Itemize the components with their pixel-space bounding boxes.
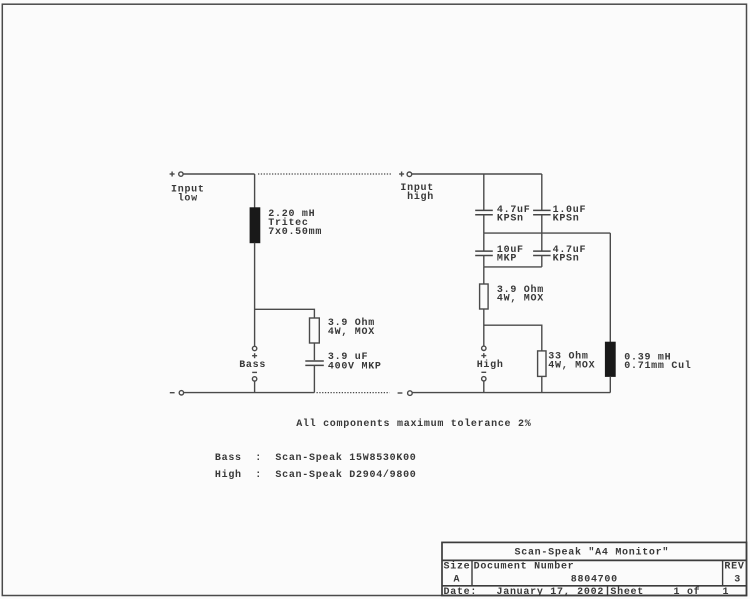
wire dotted low-high + bus bbox=[258, 173, 391, 175]
label 3.9 Ohm 4W, MOX bbox=[328, 317, 375, 338]
node Bass minus sign bbox=[252, 371, 257, 373]
svg-text:7x0.50mm: 7x0.50mm bbox=[268, 227, 322, 238]
label 1.0uF KPSn bbox=[553, 205, 587, 225]
wire junction to 33 Ohm branch bbox=[484, 325, 542, 351]
wire bbox=[254, 243, 256, 347]
wire bbox=[183, 173, 254, 175]
label Input low bbox=[171, 184, 205, 204]
svg-text:8804700: 8804700 bbox=[571, 574, 618, 585]
title block divider REV bbox=[722, 560, 724, 585]
terminal Input low + bbox=[179, 172, 183, 176]
wire bbox=[254, 381, 256, 393]
svg-text:4W, MOX: 4W, MOX bbox=[548, 360, 595, 371]
inductor 0.39 mH bbox=[605, 342, 615, 376]
label 0.39 mH 0.71mm Cul bbox=[624, 352, 691, 371]
label 4.7uF KPSn lower bbox=[553, 245, 587, 265]
wire bbox=[541, 215, 543, 233]
svg-text:Bass: Bass bbox=[239, 360, 266, 371]
capacitor 4.7uF KPSn lower plates bbox=[533, 251, 551, 255]
node High plus sign bbox=[481, 353, 486, 358]
wire dotted low-high return bus bbox=[317, 392, 390, 394]
wire bbox=[609, 376, 611, 392]
label 2.20 mH Tritec 7x0.50mm bbox=[268, 209, 322, 238]
wire right riser bbox=[609, 233, 611, 342]
node low return - bbox=[170, 392, 175, 394]
svg-text:1 of: 1 of bbox=[674, 586, 701, 598]
terminal High + bbox=[482, 346, 486, 350]
svg-text:REV: REV bbox=[724, 562, 744, 573]
svg-text:High: High bbox=[477, 359, 504, 371]
terminal Input high + bbox=[407, 172, 412, 177]
wire bbox=[483, 267, 485, 284]
wire lower connector bbox=[484, 266, 542, 268]
svg-text:low: low bbox=[178, 192, 198, 204]
svg-text:Scan-Speak "A4 Monitor": Scan-Speak "A4 Monitor" bbox=[515, 547, 670, 559]
capacitor 10uF MKP plates bbox=[475, 251, 493, 255]
title block row line lower bbox=[442, 585, 747, 587]
label Input high bbox=[400, 183, 434, 203]
svg-text:0.71mm Cul: 0.71mm Cul bbox=[624, 360, 691, 372]
inductor 2.20 mH bbox=[250, 208, 260, 243]
svg-text:Bass : Scan-Speak 15W8530K00: Bass : Scan-Speak 15W8530K00 bbox=[215, 452, 417, 464]
svg-text:KPSn: KPSn bbox=[553, 213, 580, 224]
wire bbox=[541, 233, 543, 251]
svg-text:1: 1 bbox=[723, 587, 730, 598]
wire bbox=[313, 365, 315, 392]
svg-text:KPSn: KPSn bbox=[553, 254, 580, 265]
node Input low + bbox=[170, 172, 175, 177]
node Input high + bbox=[399, 172, 404, 177]
svg-text:January 17, 2002: January 17, 2002 bbox=[497, 587, 605, 598]
svg-text:400V MKP: 400V MKP bbox=[328, 361, 382, 372]
wire bbox=[184, 392, 315, 394]
svg-text:A: A bbox=[454, 574, 461, 585]
svg-text:All components maximum toleran: All components maximum tolerance 2% bbox=[296, 418, 531, 430]
svg-text:MKP: MKP bbox=[497, 254, 517, 265]
svg-text:KPSn: KPSn bbox=[497, 213, 524, 224]
title block row line upper bbox=[442, 559, 747, 561]
capacitor 4.7uF KPSn upper-left plates bbox=[475, 210, 493, 214]
resistor 33 Ohm bbox=[538, 351, 546, 377]
node High minus sign bbox=[481, 371, 486, 373]
resistor 3.9 Ohm low bbox=[310, 318, 320, 343]
wire mid horizontal bbox=[484, 232, 611, 234]
svg-text:High : Scan-Speak D2904/9800: High : Scan-Speak D2904/9800 bbox=[215, 469, 417, 481]
terminal Bass + bbox=[252, 346, 256, 350]
label 3.9 Ohm 4W, MOX high bbox=[497, 284, 544, 305]
terminal high return bbox=[408, 391, 413, 396]
label 3.9 uF 400V MKP bbox=[328, 352, 382, 373]
svg-text:3: 3 bbox=[734, 574, 741, 585]
wire bbox=[541, 256, 543, 267]
wire bbox=[541, 174, 543, 210]
wire bbox=[254, 174, 256, 208]
label 33 Ohm 4W, MOX bbox=[548, 350, 595, 371]
wire bbox=[541, 376, 543, 392]
terminal Bass - bbox=[252, 377, 256, 381]
title block divider Size bbox=[471, 560, 473, 585]
wire bbox=[483, 256, 485, 267]
wire bbox=[483, 381, 485, 393]
svg-text:Sheet: Sheet bbox=[610, 586, 644, 598]
label 4.7uF KPSn bbox=[497, 205, 531, 225]
title block outline bbox=[442, 542, 747, 595]
wire bbox=[412, 173, 542, 175]
wire bbox=[483, 215, 485, 233]
capacitor 1.0uF KPSn plates bbox=[533, 210, 551, 214]
wire bbox=[412, 392, 610, 394]
terminal low return bbox=[179, 391, 183, 395]
wire junction to RC branch bbox=[255, 309, 315, 318]
svg-text:4W, MOX: 4W, MOX bbox=[328, 327, 375, 338]
node Bass plus sign bbox=[252, 353, 257, 358]
terminal High - bbox=[482, 377, 486, 381]
label 10uF MKP bbox=[497, 245, 524, 265]
node high return - bbox=[398, 392, 403, 394]
wire bbox=[483, 233, 485, 251]
wire bbox=[483, 174, 485, 210]
wire bbox=[313, 343, 315, 360]
svg-text:Document Number: Document Number bbox=[474, 561, 575, 573]
svg-text:high: high bbox=[407, 191, 434, 203]
resistor 3.9 Ohm high bbox=[480, 284, 489, 309]
svg-text:4W, MOX: 4W, MOX bbox=[497, 294, 544, 305]
svg-text:Size: Size bbox=[444, 561, 471, 573]
wire bbox=[483, 309, 485, 346]
svg-text:Date:: Date: bbox=[444, 587, 478, 598]
capacitor 3.9 uF plates bbox=[305, 361, 324, 365]
title block divider Sheet bbox=[607, 586, 609, 596]
